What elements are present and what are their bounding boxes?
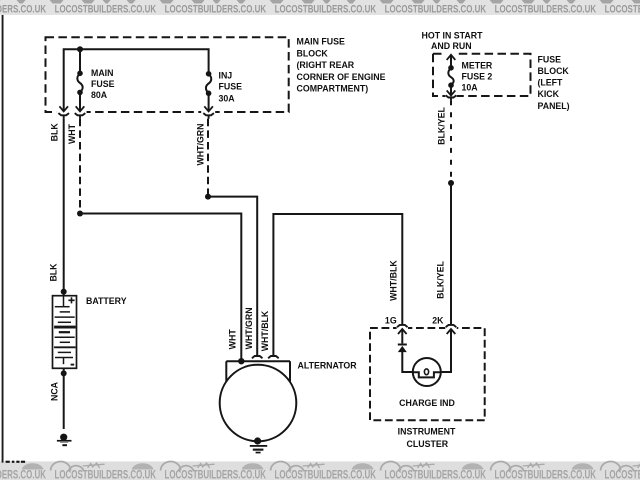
svg-text:INJ: INJ: [219, 71, 233, 81]
lamp filament loop: [424, 369, 428, 375]
white gaps on box bottom edge for connectors: [57, 108, 216, 115]
fuse F MAIN stem: [79, 49, 81, 73]
svg-text:LOCOSTBUILDERS.CO.UK: LOCOSTBUILDERS.CO.UK: [55, 4, 157, 16]
svg-text:(LEFT: (LEFT: [538, 78, 564, 88]
svg-text:WHT: WHT: [228, 329, 238, 350]
watermark bottom logos: [0, 462, 640, 471]
watermark bottom band: [0, 461, 640, 480]
svg-text:CHARGE IND: CHARGE IND: [399, 398, 455, 408]
main fuse block dashed box: [46, 37, 289, 112]
svg-text:30A: 30A: [219, 94, 236, 104]
svg-text:MAIN FUSE: MAIN FUSE: [297, 37, 346, 47]
wire WHT dashed: [79, 119, 81, 214]
fuse element INJ 30A: [206, 74, 211, 94]
svg-text:WHT/BLK: WHT/BLK: [260, 310, 270, 351]
clipped label fragment bottom-left: [6, 461, 25, 463]
node bus/fuse junction: [77, 46, 83, 52]
svg-text:CLUSTER: CLUSTER: [407, 439, 449, 449]
svg-text:BATTERY: BATTERY: [86, 296, 127, 306]
battery box: [53, 296, 77, 369]
svg-text:WHT/BLK: WHT/BLK: [389, 260, 399, 301]
connector cup below meter fuse: [446, 95, 457, 97]
svg-text:MAIN: MAIN: [91, 68, 113, 78]
connector cup below WHT arrow: [75, 113, 86, 115]
fuse MAIN lower stem: [79, 92, 81, 110]
ground battery: [57, 434, 72, 447]
wire BLK/YEL dashed: [450, 100, 452, 183]
node battery bottom: [61, 370, 67, 376]
alternator terminal box: [226, 361, 290, 382]
alternator body circle: [220, 365, 297, 442]
fuse INJ end dots: [206, 71, 212, 77]
svg-text:BLK: BLK: [49, 123, 59, 142]
node battery top: [61, 289, 67, 295]
node WHT/GRN splice: [205, 194, 211, 200]
svg-text:FUSE: FUSE: [219, 82, 243, 92]
svg-text:LOCOSTBUILDERS.CO.UK: LOCOSTBUILDERS.CO.UK: [0, 4, 47, 16]
svg-text:WHT/GRN: WHT/GRN: [244, 307, 254, 349]
wire 1G arrow stem to diode: [401, 330, 403, 343]
connector arrow down at BLK: [59, 106, 68, 111]
svg-text:LOCOSTBUILDERS.CO.UK: LOCOSTBUILDERS.CO.UK: [605, 4, 640, 16]
node BLK/YEL splice: [448, 180, 454, 186]
instrument cluster dashed box: [370, 328, 485, 420]
svg-text:FUSE: FUSE: [91, 79, 115, 89]
connector cup below BLK arrow: [58, 113, 69, 115]
connector arrow up 1G: [398, 329, 407, 334]
battery plates: [54, 296, 76, 364]
connector cup WHT/BLK at alternator: [268, 356, 279, 358]
svg-text:LOCOSTBUILDERS.CO.UK: LOCOSTBUILDERS.CO.UK: [495, 467, 597, 480]
connector cup 1G: [397, 325, 408, 327]
svg-text:1G: 1G: [385, 316, 397, 326]
fuse INJ lower stem: [208, 93, 210, 110]
connector arrow down at WHT: [76, 106, 85, 111]
svg-text:PANEL): PANEL): [538, 101, 570, 111]
svg-text:FUSE 2: FUSE 2: [462, 72, 493, 82]
svg-text:LOCOSTBUILDERS.CO.UK: LOCOSTBUILDERS.CO.UK: [55, 467, 157, 480]
svg-text:LOCOSTBUILDERS.CO.UK: LOCOSTBUILDERS.CO.UK: [385, 4, 487, 16]
svg-text:HOT IN START: HOT IN START: [422, 30, 484, 40]
node alternator B terminal: [238, 358, 244, 364]
svg-text:2K: 2K: [432, 316, 444, 326]
svg-text:KICK: KICK: [538, 89, 560, 99]
fuse METER end dots: [448, 65, 454, 71]
svg-text:(RIGHT REAR: (RIGHT REAR: [297, 60, 355, 70]
wire lamp to 2K: [441, 330, 452, 372]
ground alternator: [250, 437, 267, 453]
page left border line: [2, 15, 4, 463]
watermark bottom text row: [0, 467, 640, 480]
svg-text:LOCOSTBUILDERS.CO.UK: LOCOSTBUILDERS.CO.UK: [495, 4, 597, 16]
fuse element METER FUSE 2 10A: [448, 68, 453, 85]
svg-text:LOCOSTBUILDERS.CO.UK: LOCOSTBUILDERS.CO.UK: [385, 467, 487, 480]
svg-text:BLK/YEL: BLK/YEL: [435, 261, 445, 299]
svg-text:AND RUN: AND RUN: [431, 41, 472, 51]
connector arrow up 2K: [447, 329, 456, 334]
svg-text:COMPARTMENT): COMPARTMENT): [297, 84, 369, 94]
svg-text:80A: 80A: [91, 90, 108, 100]
svg-text:NCA: NCA: [50, 381, 60, 401]
svg-text:METER: METER: [462, 60, 493, 70]
battery +: [68, 297, 74, 303]
wire diode to lamp: [402, 352, 413, 373]
node WHT splice: [77, 211, 83, 217]
connector cup WHT/GRN at alternator: [252, 356, 263, 358]
charge lamp circle: [413, 358, 441, 386]
fuse element MAIN 80A: [77, 73, 82, 92]
watermark top band: [0, 0, 640, 15]
connector cup below WHT/GRN arrow: [203, 113, 214, 115]
svg-text:LOCOSTBUILDERS.CO.UK: LOCOSTBUILDERS.CO.UK: [605, 467, 640, 480]
svg-text:WHT: WHT: [67, 123, 77, 144]
diode D1 charge ind: [398, 344, 407, 353]
svg-text:LOCOSTBUILDERS.CO.UK: LOCOSTBUILDERS.CO.UK: [0, 467, 46, 480]
connector arrow down to BLK/YEL: [447, 90, 456, 95]
connector cup 2K: [446, 325, 457, 327]
svg-text:LOCOSTBUILDERS.CO.UK: LOCOSTBUILDERS.CO.UK: [165, 4, 267, 16]
wire: bus from BLK riser to INJ fuse: [64, 49, 209, 110]
watermark top logo fragments: [0, 0, 640, 4]
svg-text:BLK/YEL: BLK/YEL: [436, 107, 446, 145]
connector arrow down at WHT/GRN: [204, 106, 213, 111]
svg-text:BLOCK: BLOCK: [297, 48, 329, 58]
wire WHT/GRN run to alternator: [208, 197, 257, 356]
svg-text:CORNER OF ENGINE: CORNER OF ENGINE: [297, 72, 386, 82]
svg-text:LOCOSTBUILDERS.CO.UK: LOCOSTBUILDERS.CO.UK: [165, 467, 267, 480]
meter fuse dashed box: [433, 54, 531, 96]
svg-text:10A: 10A: [462, 83, 479, 93]
svg-text:LOCOSTBUILDERS.CO.UK: LOCOSTBUILDERS.CO.UK: [275, 467, 377, 480]
meter fuse lower stem: [450, 85, 452, 94]
svg-text:BLOCK: BLOCK: [538, 66, 570, 76]
fuse MAIN end dots: [77, 71, 83, 77]
wire NCA to ground: [63, 368, 65, 429]
wire WHT/BLK alternator to 1G: [273, 214, 402, 356]
svg-text:LOCOSTBUILDERS.CO.UK: LOCOSTBUILDERS.CO.UK: [275, 4, 377, 16]
wire BLK battery feed: [63, 119, 65, 296]
svg-text:BLK: BLK: [49, 263, 59, 282]
wire WHT horizontal run to alternator: [80, 214, 241, 362]
svg-text:WHT/GRN: WHT/GRN: [196, 123, 206, 165]
wire WHT/GRN dashed: [207, 119, 209, 197]
svg-text:ALTERNATOR: ALTERNATOR: [298, 360, 358, 370]
battery -: [71, 364, 75, 366]
watermark top text row: [0, 4, 640, 16]
meter fuse upper stem: [450, 56, 452, 68]
svg-text:FUSE: FUSE: [538, 54, 562, 64]
lamp filament notch: [413, 372, 440, 377]
svg-text:INSTRUMENT: INSTRUMENT: [398, 427, 456, 437]
connector arrow up at HOT: [447, 55, 456, 60]
wire BLK/YEL solid: [450, 183, 452, 325]
